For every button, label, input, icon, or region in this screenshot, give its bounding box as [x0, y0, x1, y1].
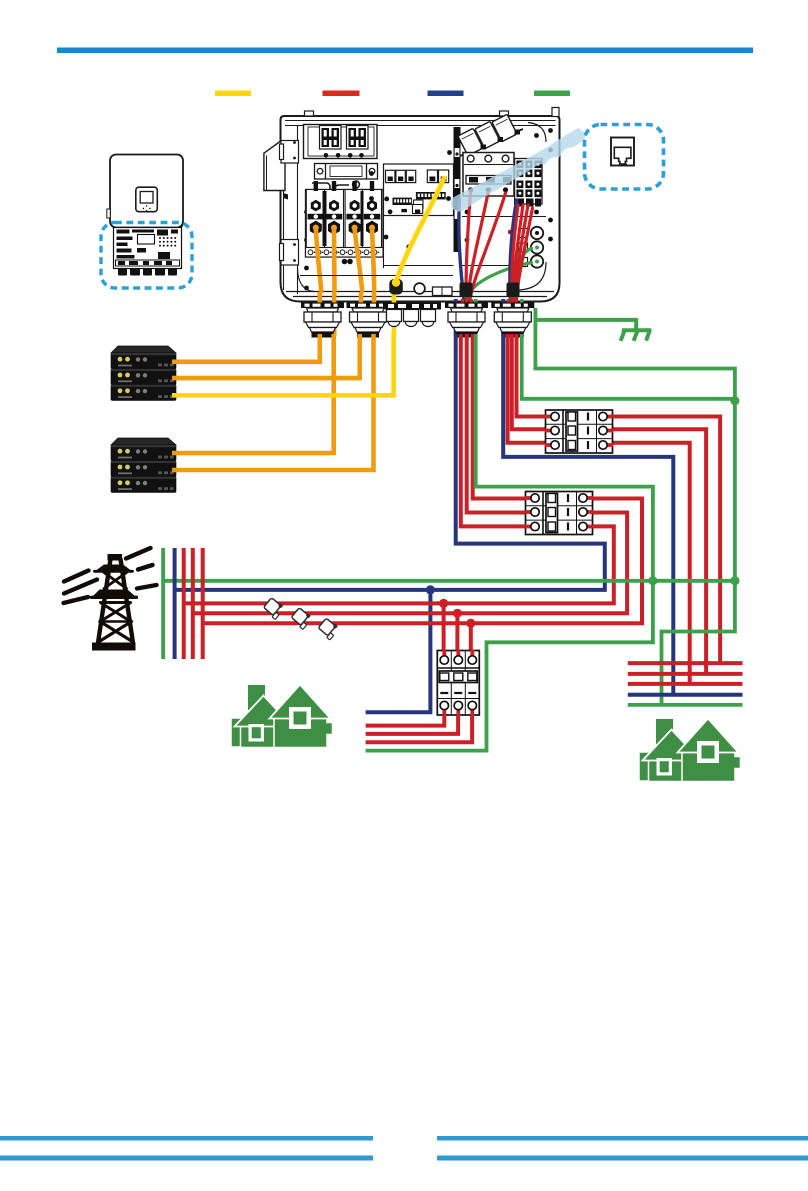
busbar elbows — [312, 181, 359, 200]
fuse F1 on L1 — [262, 597, 285, 620]
home loads house — [231, 685, 333, 748]
comms screws — [369, 150, 452, 249]
grid neutral blue: gland4 to grid bus — [175, 334, 605, 590]
bottom-right inner corner arc — [516, 262, 546, 290]
backup load bus bars — [628, 661, 743, 665]
PV/battery orange leads inside inverter — [316, 229, 374, 291]
hybrid inverter internal view (main unit) — [264, 108, 560, 337]
AC internal wires: green earth jumpers — [467, 249, 532, 299]
inverter chassis outer shell — [281, 116, 560, 302]
AC section relays (tilted) — [458, 114, 523, 157]
legend earth green — [534, 91, 570, 97]
backup breaker outputs to load bus — [609, 417, 720, 664]
yellow comms cable inside inverter — [389, 178, 444, 295]
conductors right — [126, 548, 151, 559]
screw dots row under DC switch — [324, 153, 364, 158]
cable clamp gland4 (inside) — [460, 283, 473, 298]
fuse F3 on L3 — [317, 617, 340, 640]
cable clamp gland5 (inside) — [507, 283, 520, 298]
DIP switch strips — [393, 192, 446, 209]
RJ45 port icon — [611, 138, 634, 166]
AC terminal block — [515, 159, 542, 207]
comms panel frame — [384, 164, 454, 216]
DC breaker module B — [347, 126, 369, 150]
battery stack 2 — [111, 438, 176, 445]
load breaker (3-pole) — [437, 651, 479, 716]
battery stack 1 — [111, 346, 176, 400]
PE tap to load breaker side — [366, 581, 653, 751]
legend battery red — [323, 91, 360, 97]
PE drop to backup load bus — [662, 581, 735, 705]
screws mid-left — [342, 197, 393, 265]
top-right inner corner arc — [528, 123, 546, 143]
frame lines below AC breaker — [462, 216, 546, 218]
light blue arrow band to RJ45 callout — [451, 128, 588, 212]
DC breaker module A — [320, 126, 342, 150]
legend grid blue — [428, 91, 464, 97]
AC breaker (internal) — [463, 153, 514, 197]
header rule — [57, 48, 753, 54]
inductor block — [315, 164, 378, 180]
conductors left — [64, 571, 89, 582]
junction nodes green PE — [648, 576, 657, 585]
gland 4 — [445, 303, 488, 309]
fuse F2 on L2 — [290, 607, 313, 630]
wall clip wedge — [284, 193, 289, 200]
gland stub wires (through-bottom) — [320, 292, 522, 336]
grid breaker outputs to pylon lines — [203, 499, 642, 624]
gland 3 cluster (small glands) — [385, 303, 442, 327]
wall bracket upper — [280, 141, 299, 164]
left mounting flange — [264, 142, 285, 191]
grid line reds: gland4 to grid breaker inputs — [473, 334, 528, 499]
backup neutral blue: gland5 to backup loads — [503, 334, 673, 695]
lower crossarm — [92, 590, 137, 598]
backup house — [656, 719, 673, 744]
AC internal wires: neutral blue — [459, 200, 517, 299]
junction node blue N — [426, 585, 435, 594]
chassis hinge bumps — [305, 111, 314, 116]
inverter front view (small, left) — [107, 155, 183, 229]
house loads — [248, 685, 265, 710]
backup breaker (3-pole) — [546, 410, 613, 453]
inline fuse isolator symbols on grid lines — [262, 597, 340, 640]
PE green: gland5 bundle to junction — [522, 334, 735, 399]
wall bracket lower — [280, 240, 299, 266]
battery terminal columns x4 — [306, 181, 384, 257]
load breaker feeders (red taps) — [442, 603, 446, 652]
battery power cable stack1-unit2 to gland2 — [172, 334, 360, 378]
divider strip with windows — [454, 127, 461, 252]
gland 5 — [491, 303, 534, 309]
backup line reds: gland5 to backup breaker inputs — [517, 334, 550, 417]
earth stud terminals — [519, 227, 544, 268]
screws left column — [304, 138, 309, 291]
AC internal wires: line red — [466, 193, 532, 299]
cable glands row under inverter — [301, 303, 534, 338]
battery power cable stack2-unit1 to gland1 — [172, 334, 334, 453]
footer rule right — [437, 1136, 808, 1141]
left section bottom frame line — [300, 275, 453, 277]
battery power cable stack1-unit1 to gland1 — [172, 334, 320, 362]
load breaker outputs — [366, 713, 445, 726]
pylon grid stubs — [161, 548, 165, 659]
bottom accessory marks — [414, 283, 425, 294]
footer rule left — [0, 1136, 373, 1141]
battery comms cable (yellow) to gland3 — [172, 334, 394, 395]
RJ45 dashed callout box — [585, 125, 664, 190]
gland 1 — [301, 303, 344, 309]
upper crossarm — [95, 565, 133, 572]
PE bus horizontal — [163, 579, 735, 583]
earth electrode branch — [535, 318, 651, 341]
transmission pylon — [64, 548, 157, 651]
battery power cable stack2-unit2 to gland2 — [172, 334, 374, 470]
legend PV yellow — [215, 91, 251, 97]
DC switch panel — [304, 125, 378, 159]
grid breaker (3-pole) — [526, 492, 593, 535]
PE green: gland4 down to PE bus — [476, 334, 653, 581]
dashed callout around terminal compartment — [101, 223, 192, 289]
junction nodes red L — [439, 599, 448, 608]
backup loads house — [639, 719, 741, 782]
PE green: gland5 plate to earth + junction — [535, 308, 735, 581]
comms RJ45 jack lower — [413, 205, 423, 214]
inverter terminal compartment (small inverter) — [114, 228, 182, 276]
battery stack 1 — [111, 346, 176, 353]
RJ45 jacks row — [386, 170, 449, 183]
grid neutral tap to load breaker — [366, 590, 431, 712]
gland 2 — [347, 303, 390, 309]
right margin screws — [465, 128, 553, 242]
